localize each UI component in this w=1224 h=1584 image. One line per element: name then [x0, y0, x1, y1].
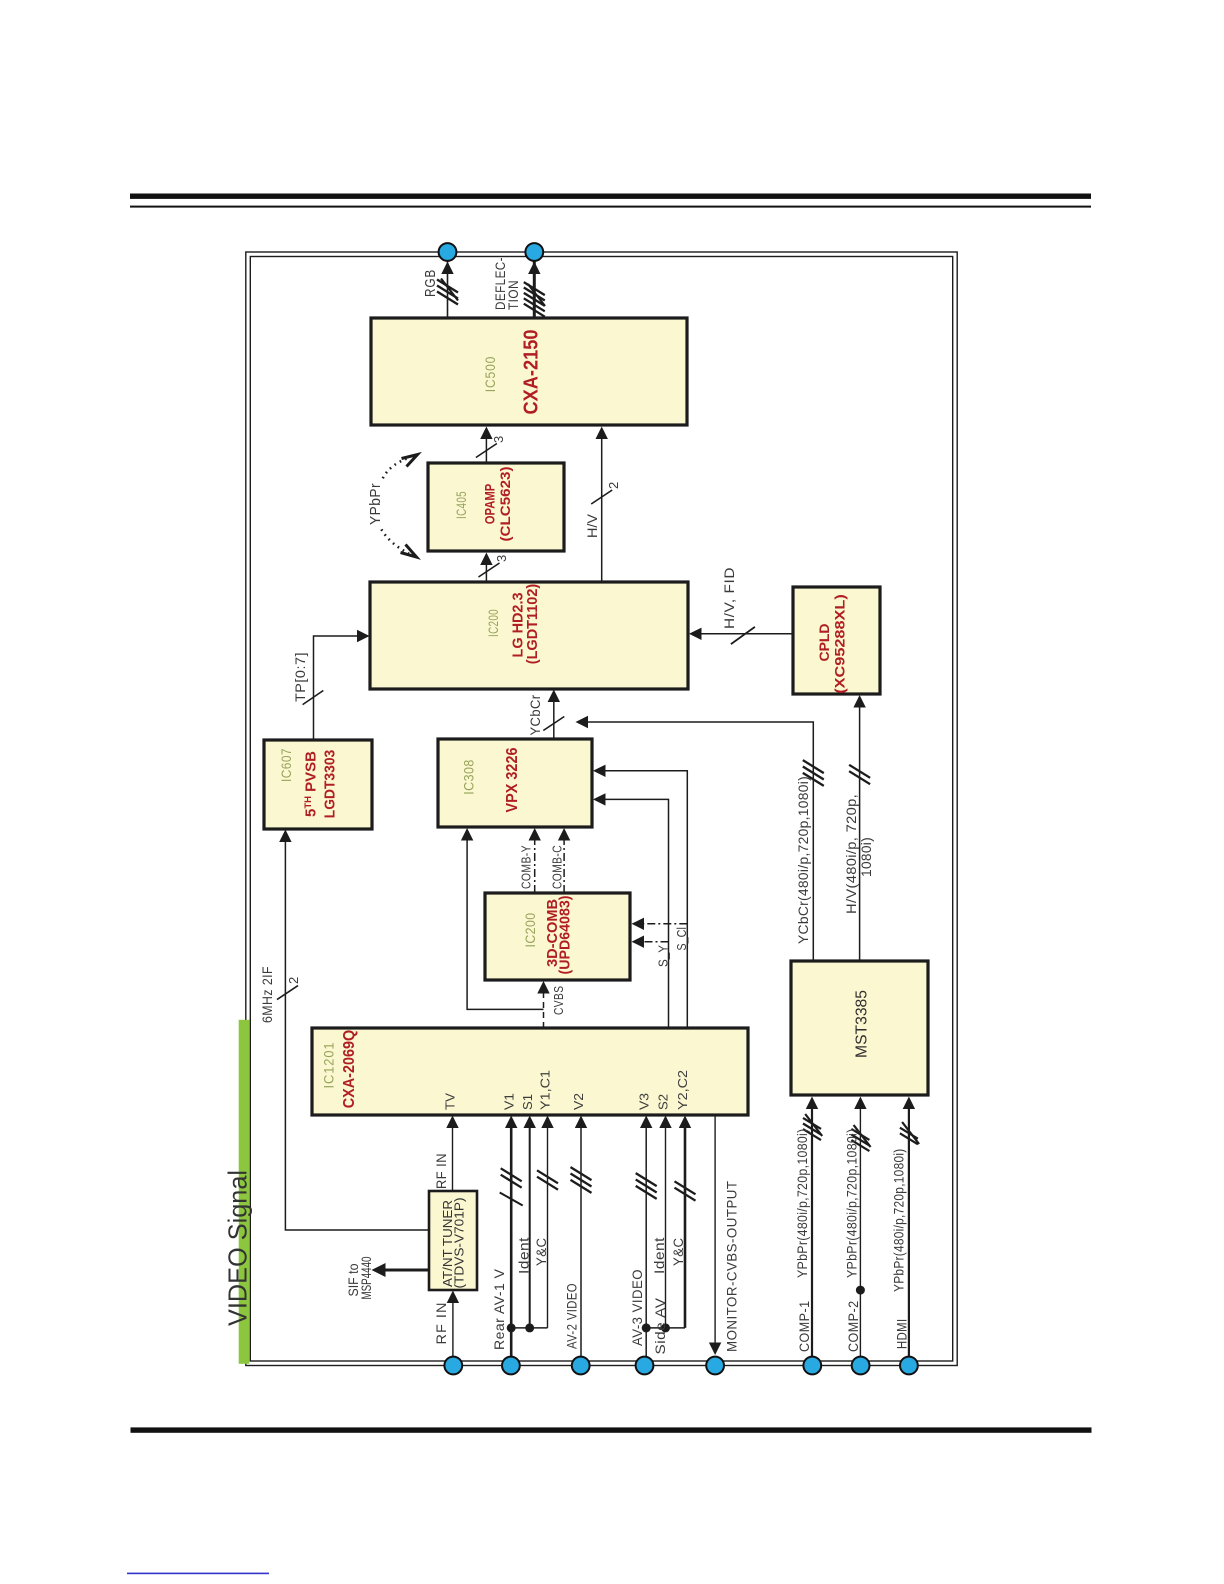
svg-text:Y&C: Y&C: [533, 1238, 549, 1267]
wire RF IN node to tuner: [452, 1293, 454, 1356]
svg-text:YCbCr: YCbCr: [527, 695, 543, 736]
YPbPr dotted arrow upper: [383, 458, 410, 479]
node MONITOR-CVBS-OUTPUT: [706, 1357, 724, 1375]
svg-text:Y1,C1: Y1,C1: [538, 1070, 553, 1110]
diagram inner frame: [250, 257, 952, 1362]
bus slashes AV-2: [571, 1180, 592, 1193]
svg-text:COMP-1: COMP-1: [796, 1301, 812, 1353]
node COMP-2: [852, 1357, 870, 1375]
node COMP-1: [803, 1357, 821, 1375]
node RGB: [439, 243, 457, 261]
svg-text:Ident: Ident: [516, 1237, 532, 1274]
wire OPAMP to CXA-2150 3: [485, 430, 487, 464]
svg-text:S2: S2: [656, 1094, 671, 1110]
node AV-3 VIDEO: [636, 1357, 654, 1375]
svg-text:H/V, FID: H/V, FID: [721, 567, 737, 629]
bus slashes Y2C2: [675, 1188, 696, 1201]
wire CVBS dashed CXA-2069Q to 3D-COMB: [543, 984, 545, 1029]
wire S_Cl CXA-2069Q to VPX: [596, 771, 687, 1028]
slash H/V FID: [731, 627, 755, 644]
svg-text:COMB-C: COMB-C: [550, 845, 565, 889]
wire AV-3 VIDEO to V3: [645, 1119, 647, 1357]
wire DEFLECTION out: [533, 259, 536, 318]
block IC405 OPAMP CLC5623: [428, 463, 564, 551]
svg-text:IC1201: IC1201: [321, 1042, 337, 1089]
svg-text:CVBS: CVBS: [551, 986, 566, 1016]
wire S_Cl dash-dot branch to 3D-COMB: [634, 923, 687, 925]
svg-text:S_Y: S_Y: [656, 945, 671, 967]
svg-text:YPbPr(480i/p,720p,1080i): YPbPr(480i/p,720p,1080i): [892, 1149, 907, 1293]
block IC200 LG HD2.3 LGDT1102: [370, 582, 688, 689]
wire S_Y dash-dot branch to 3D-COMB: [634, 941, 669, 943]
block AT/NT TUNER TDVS-V701P: [429, 1191, 477, 1290]
junction dot COMP-2: [856, 1286, 865, 1295]
green VIDEO Signal bar: [239, 1020, 250, 1364]
wire COMB-C dash-dot to VPX: [563, 831, 565, 893]
junction dots AV-3: [642, 1323, 651, 1332]
svg-text:CXA-2069Q: CXA-2069Q: [341, 1030, 358, 1109]
page footer rule: [131, 1427, 1092, 1432]
svg-text:CXA-2150: CXA-2150: [521, 330, 543, 415]
svg-text:TION: TION: [505, 280, 521, 310]
svg-text:MSP4440: MSP4440: [358, 1256, 374, 1299]
svg-text:RGB: RGB: [422, 269, 439, 297]
diagram outer frame: [246, 252, 957, 1366]
bus slashes Y&C: [537, 1177, 558, 1190]
svg-text:YPbPr: YPbPr: [367, 483, 384, 525]
svg-text:HDMI: HDMI: [894, 1319, 910, 1350]
svg-text:V3: V3: [636, 1093, 651, 1110]
svg-text:3: 3: [491, 436, 506, 443]
wire YCbCr MST3385 up and left: [579, 722, 814, 961]
svg-text:YPbPr(480i/p,720p,1080i): YPbPr(480i/p,720p,1080i): [845, 1129, 860, 1279]
svg-text:(TDVS-V701P): (TDVS-V701P): [452, 1198, 467, 1289]
node RF IN: [444, 1357, 462, 1375]
svg-text:V1: V1: [501, 1093, 516, 1110]
svg-text:IC500: IC500: [482, 356, 498, 393]
svg-text:MST3385: MST3385: [854, 990, 871, 1058]
block MST3385: [791, 961, 928, 1095]
wire COMP-2 to MST3385: [859, 1100, 861, 1357]
block CPLD XC95288XL: [793, 587, 880, 694]
wire TP[0:7] 5TH PVSB to LG: [314, 636, 367, 740]
branch AV-3: [646, 1327, 685, 1329]
svg-text:COMB-Y: COMB-Y: [519, 845, 534, 889]
svg-text:S_Cl: S_Cl: [674, 927, 689, 951]
wire AV-2 VIDEO to V2: [580, 1119, 582, 1357]
svg-text:Side AV: Side AV: [652, 1297, 668, 1354]
svg-text:(XC95288XL): (XC95288XL): [832, 594, 848, 694]
wire RGB out: [447, 259, 449, 318]
svg-text:RF IN: RF IN: [433, 1302, 449, 1345]
svg-text:(CLC5623): (CLC5623): [497, 467, 513, 542]
node AV-2 VIDEO: [572, 1357, 590, 1375]
block IC500 CXA-2150: [371, 318, 687, 425]
wire CVBS branch to VPX: [467, 831, 543, 1009]
svg-text:RF IN: RF IN: [433, 1153, 449, 1189]
wire S_Y CXA-2069Q to VPX: [596, 799, 669, 1028]
svg-text:YPbPr(480i/p,720p,1080i): YPbPr(480i/p,720p,1080i): [795, 1129, 810, 1279]
wire Side AV Ident to S2: [665, 1119, 667, 1328]
svg-text:CPLD: CPLD: [816, 624, 832, 662]
node DEFLECTION: [525, 243, 543, 261]
svg-text:6MHz 2IF: 6MHz 2IF: [259, 966, 275, 1023]
wire MONITOR-CVBS-OUTPUT: [714, 1115, 716, 1353]
svg-text:2: 2: [606, 482, 621, 489]
node HDMI: [900, 1357, 918, 1375]
svg-text:TP[0:7]: TP[0:7]: [292, 652, 308, 702]
wire H/V MST3385 to CPLD: [859, 698, 861, 961]
svg-text:IC200: IC200: [522, 913, 538, 948]
svg-text:COMP-2: COMP-2: [845, 1301, 861, 1353]
node Rear AV-1: [502, 1357, 520, 1375]
svg-text:IC200: IC200: [485, 609, 501, 637]
svg-text:IC308: IC308: [461, 759, 477, 795]
svg-text:(UPD64083): (UPD64083): [557, 895, 574, 974]
wire SIF to MSP4440: [375, 1269, 429, 1272]
junction dots Rear AV-1: [507, 1323, 516, 1332]
page header rule thin: [130, 206, 1091, 208]
block IC607 5TH PVSB LGDT3303: [264, 740, 372, 829]
svg-text:OPAMP: OPAMP: [482, 484, 498, 525]
svg-text:3: 3: [494, 555, 509, 562]
wire YCbCr VPX to LG: [553, 693, 555, 740]
svg-text:2: 2: [286, 977, 301, 984]
svg-text:VIDEO Signal: VIDEO Signal: [223, 1170, 253, 1326]
wire tuner to CXA-2069Q TV pin: [452, 1119, 454, 1192]
wire H/V LG to CXA-2150: [601, 430, 603, 583]
svg-text:S1: S1: [520, 1094, 535, 1110]
svg-text:YCbCr(480i/p,720p,1080i): YCbCr(480i/p,720p,1080i): [796, 776, 811, 944]
bus slashes AV-3: [636, 1186, 657, 1199]
svg-text:MONITOR-CVBS-OUTPUT: MONITOR-CVBS-OUTPUT: [723, 1181, 739, 1353]
svg-text:Y&C: Y&C: [670, 1238, 686, 1267]
branch Rear AV-1: [511, 1327, 547, 1329]
svg-text:Y2,C2: Y2,C2: [675, 1070, 690, 1110]
wire COMB-Y dash-dot to VPX: [534, 831, 536, 893]
svg-text:Rear AV-1 V: Rear AV-1 V: [491, 1268, 507, 1350]
svg-text:AV-3 VIDEO: AV-3 VIDEO: [629, 1269, 645, 1346]
YPbPr dotted arrow lower: [381, 529, 409, 553]
page header rule thick: [130, 194, 1091, 199]
block IC200 3D-COMB UPD64083: [485, 893, 630, 980]
wire HDMI to MST3385: [908, 1100, 910, 1357]
svg-text:V2: V2: [571, 1093, 586, 1110]
svg-text:IC607: IC607: [278, 748, 294, 782]
svg-text:IC405: IC405: [453, 491, 469, 519]
wire 6MHz 2IF tuner to 5TH PVSB: [285, 833, 429, 1231]
svg-text:H/V(480i/p, 720p,: H/V(480i/p, 720p,: [844, 794, 859, 914]
bus slashes Rear AV-1: [501, 1175, 522, 1188]
svg-text:LGDT3303: LGDT3303: [322, 750, 339, 819]
svg-text:1080i): 1080i): [859, 837, 874, 877]
wire H/V FID CPLD to LG: [692, 633, 793, 635]
svg-text:TV: TV: [443, 1093, 458, 1110]
footer blue link line: [127, 1573, 269, 1575]
slash TP bus: [303, 691, 324, 705]
svg-text:AV-2 VIDEO: AV-2 VIDEO: [563, 1283, 579, 1349]
svg-text:H/V: H/V: [584, 513, 600, 538]
block IC1201 CXA-2069Q: [312, 1028, 748, 1115]
svg-text:Ident: Ident: [651, 1237, 667, 1274]
wire Y&C to Y2,C2: [684, 1119, 687, 1328]
wire LG to OPAMP 3: [485, 556, 487, 583]
wire Y&C to Y1,C1: [547, 1119, 549, 1328]
svg-text:(LGDT1102): (LGDT1102): [524, 584, 541, 665]
wire Ident to S1: [529, 1119, 531, 1328]
block IC308 VPX 3226: [438, 739, 592, 827]
svg-text:VPX 3226: VPX 3226: [504, 747, 521, 812]
wire COMP-1 to MST3385: [811, 1100, 813, 1357]
wire Rear AV-1 V to CXA-2069Q V1: [510, 1119, 513, 1357]
